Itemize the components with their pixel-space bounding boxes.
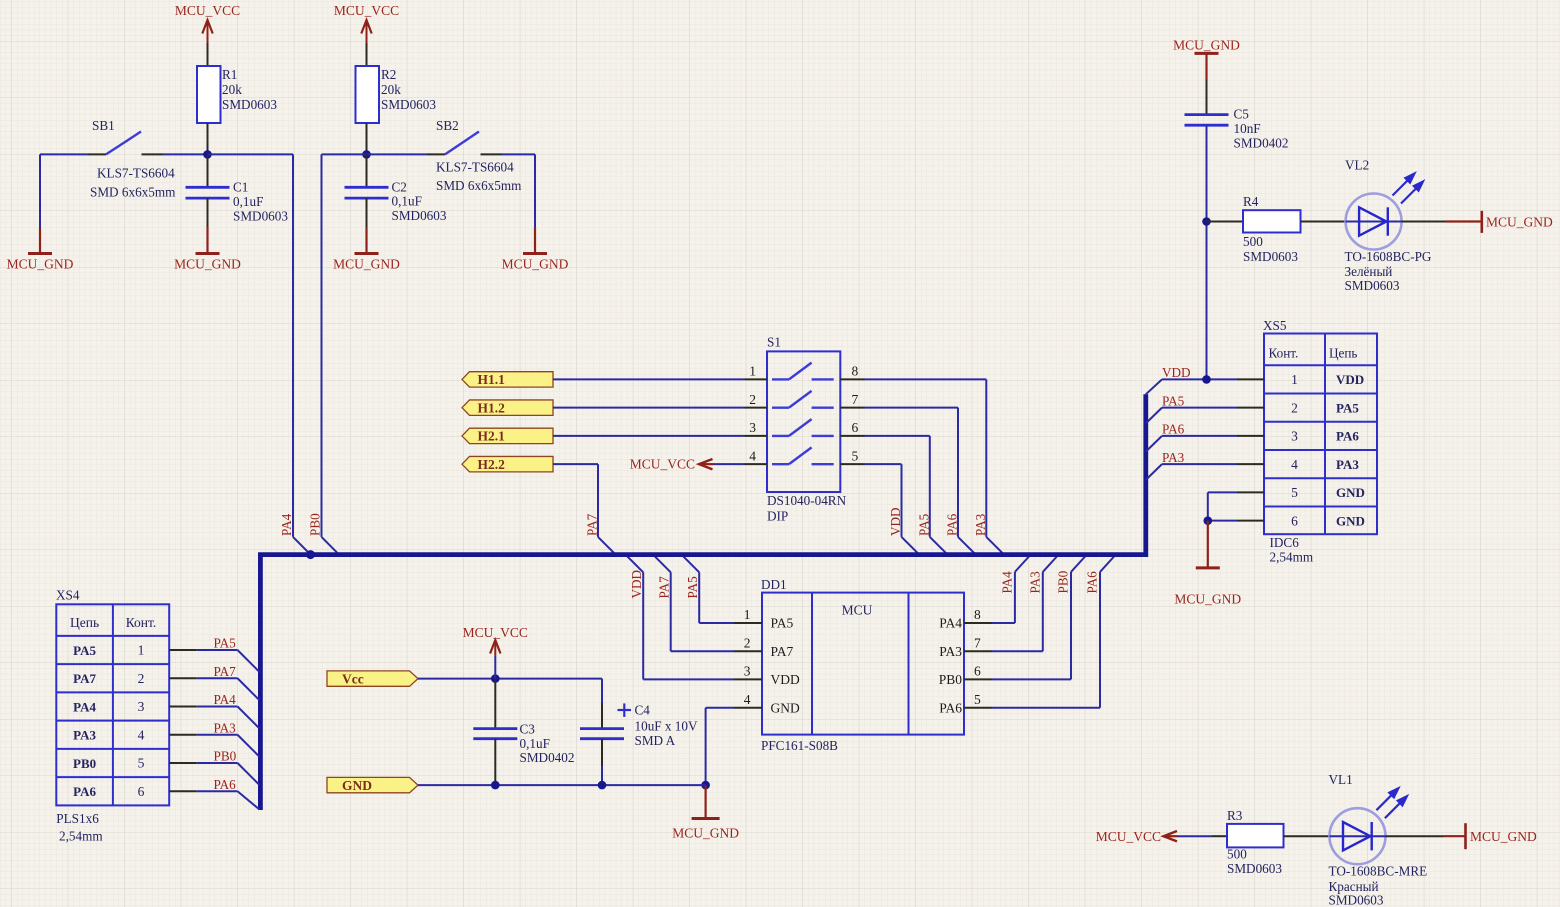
svg-text:R3: R3 (1227, 808, 1243, 823)
svg-text:S1: S1 (767, 335, 781, 350)
wire bus to DD1 (VDD) (643, 678, 734, 680)
svg-text:20k: 20k (222, 82, 242, 97)
svg-text:2,54mm: 2,54mm (1270, 550, 1314, 565)
svg-text:PA3: PA3 (1162, 450, 1185, 465)
svg-text:DIP: DIP (767, 509, 788, 524)
svg-text:PA7: PA7 (771, 644, 794, 659)
svg-text:0,1uF: 0,1uF (392, 194, 422, 209)
svg-text:SMD0402: SMD0402 (520, 750, 575, 765)
svg-text:PA3: PA3 (1336, 457, 1359, 472)
svg-text:DD1: DD1 (761, 577, 787, 592)
svg-text:PB0: PB0 (939, 672, 963, 687)
svg-text:MCU_VCC: MCU_VCC (334, 3, 399, 18)
svg-text:SMD0603: SMD0603 (381, 97, 436, 112)
wire SB2 right drop (534, 154, 536, 227)
wire bus to XS5 (PA5) (1146, 408, 1162, 424)
svg-text:2: 2 (1291, 400, 1298, 415)
svg-text:DS1040-04RN: DS1040-04RN (767, 493, 847, 508)
power MCU_VCC (Vcc rail) (494, 656, 496, 679)
pin R2 bottom (366, 123, 368, 154)
svg-text:Vcc: Vcc (342, 671, 364, 686)
wire bus to XS5 (PA3) (1146, 464, 1162, 480)
resistor R4 (1207, 221, 1244, 223)
svg-text:MCU_GND: MCU_GND (1174, 592, 1241, 607)
svg-text:MCU_GND: MCU_GND (174, 257, 241, 272)
svg-text:6: 6 (852, 420, 859, 435)
svg-text:1: 1 (138, 643, 145, 658)
bus (thick net) (260, 394, 1145, 810)
svg-text:7: 7 (852, 392, 859, 407)
ground MCU_GND (SB1) (39, 227, 41, 254)
svg-text:IDC6: IDC6 (1270, 535, 1300, 550)
svg-text:8: 8 (852, 364, 859, 379)
capacitor C1 (207, 154, 209, 187)
S1 pin 2 (745, 407, 768, 409)
svg-text:PB0: PB0 (1056, 570, 1071, 593)
svg-text:3: 3 (1291, 429, 1298, 444)
svg-text:C3: C3 (520, 722, 536, 737)
svg-text:SMD A: SMD A (635, 733, 676, 748)
svg-text:0,1uF: 0,1uF (233, 194, 263, 209)
svg-text:R4: R4 (1243, 194, 1259, 209)
wire node to PB0 drop (322, 153, 367, 155)
capacitor C2 (366, 154, 368, 187)
svg-text:VDD: VDD (888, 507, 903, 536)
svg-text:VDD: VDD (629, 570, 644, 599)
svg-text:PFC161-S08B: PFC161-S08B (761, 738, 838, 753)
svg-text:PA6: PA6 (1085, 571, 1100, 594)
svg-text:PA4: PA4 (73, 699, 96, 714)
svg-text:H1.1: H1.1 (478, 372, 506, 387)
svg-text:SMD0603: SMD0603 (222, 97, 277, 112)
svg-text:XS5: XS5 (1263, 318, 1287, 333)
svg-text:GND: GND (342, 778, 372, 793)
S1 pin 3 (745, 435, 768, 437)
wire port to S1 (553, 435, 745, 437)
capacitor C4 (601, 703, 603, 729)
svg-text:PA6: PA6 (214, 777, 237, 792)
S1 switch element row 4 (772, 463, 789, 465)
DD1 pin 6 (PB0) (964, 678, 992, 680)
C4 polarity mark (618, 709, 632, 711)
svg-text:PA7: PA7 (214, 664, 237, 679)
wire XS5 GND pins (1208, 491, 1237, 493)
node junction R1/C1/SB1 (203, 150, 212, 159)
svg-text:PA6: PA6 (1162, 422, 1185, 437)
svg-text:Цепь: Цепь (70, 615, 99, 630)
DD1 pin 4 (GND) (734, 707, 762, 709)
svg-text:C5: C5 (1234, 107, 1250, 122)
port Vcc (327, 671, 418, 686)
svg-text:PB0: PB0 (308, 513, 323, 536)
svg-text:PA6: PA6 (73, 784, 96, 799)
svg-text:0,1uF: 0,1uF (520, 736, 550, 751)
svg-text:PA3: PA3 (1027, 571, 1042, 594)
DD1 pin 8 (PA4) (964, 622, 992, 624)
svg-text:MCU_GND: MCU_GND (333, 257, 400, 272)
wire bus to XS5 (PA6) (1146, 436, 1162, 452)
svg-text:500: 500 (1227, 847, 1247, 862)
svg-text:3: 3 (749, 420, 756, 435)
svg-text:VDD: VDD (1162, 365, 1191, 380)
power MCU_VCC (R2 top) (366, 43, 368, 66)
wire bus to DD1 (PA5) (699, 622, 734, 624)
S1 pin 7 (840, 407, 864, 409)
svg-text:C2: C2 (392, 180, 407, 195)
svg-text:4: 4 (744, 692, 751, 707)
wire port to S1 (553, 407, 745, 409)
svg-text:H1.2: H1.2 (478, 400, 506, 415)
svg-text:PA5: PA5 (1336, 400, 1359, 415)
svg-text:6: 6 (974, 664, 981, 679)
svg-text:MCU_VCC: MCU_VCC (175, 3, 240, 18)
wire XS4 PB0 to bus (197, 762, 238, 764)
svg-text:MCU_GND: MCU_GND (1486, 215, 1553, 230)
port H1.1 (462, 372, 553, 387)
node junction Vcc/C3 (491, 674, 500, 683)
svg-text:MCU: MCU (842, 603, 873, 618)
svg-text:GND: GND (771, 700, 800, 715)
node junction GND/C3 (491, 781, 500, 790)
svg-text:2: 2 (744, 635, 751, 650)
svg-text:8: 8 (974, 607, 981, 622)
svg-text:MCU_VCC: MCU_VCC (630, 457, 695, 472)
svg-text:SMD0603: SMD0603 (1243, 249, 1298, 264)
svg-text:SMD0603: SMD0603 (233, 209, 288, 224)
DD1 pin 7 (PA3) (964, 650, 992, 652)
wire DD1 to bus (PA4) (992, 622, 1015, 624)
svg-text:SMD0603: SMD0603 (1329, 893, 1384, 907)
svg-text:PA6: PA6 (945, 513, 960, 536)
svg-text:PA5: PA5 (214, 636, 237, 651)
svg-text:MCU_GND: MCU_GND (672, 826, 739, 841)
wire S1 to bus (VDD) (865, 463, 902, 465)
port H2.2 (462, 456, 553, 471)
svg-text:1: 1 (749, 364, 756, 379)
wire GND rail (418, 784, 706, 786)
svg-text:2: 2 (138, 671, 145, 686)
svg-text:MCU_VCC: MCU_VCC (1096, 829, 1161, 844)
svg-text:VDD: VDD (771, 672, 800, 687)
wire Vcc rail (418, 678, 602, 680)
capacitor C3 (494, 679, 496, 729)
ground MCU_GND (SB2) (534, 227, 536, 254)
power MCU_GND (VL2 right) (1481, 211, 1484, 233)
node junction C5/R4 (1202, 217, 1211, 226)
wire port to S1 (553, 378, 745, 380)
svg-text:PB0: PB0 (214, 749, 237, 764)
wire XS4 PA6 to bus (197, 790, 238, 792)
svg-text:TO-1608BC-MRE: TO-1608BC-MRE (1329, 864, 1428, 879)
svg-text:H2.1: H2.1 (478, 429, 506, 444)
node junction R2/C2/SB2 (362, 150, 371, 159)
svg-text:3: 3 (744, 664, 751, 679)
resistor R1 (197, 66, 221, 123)
S1 pin 4 (745, 463, 768, 465)
svg-text:PA4: PA4 (279, 513, 294, 536)
svg-text:SB1: SB1 (92, 118, 115, 133)
svg-text:VL1: VL1 (1329, 772, 1353, 787)
wire SB1 left drop (39, 154, 41, 227)
svg-text:SMD 6x6x5mm: SMD 6x6x5mm (436, 178, 522, 193)
svg-text:MCU_GND: MCU_GND (1173, 38, 1240, 53)
svg-text:VDD: VDD (1336, 372, 1364, 387)
svg-text:C4: C4 (635, 703, 651, 718)
wire node to PA4 drop (208, 153, 294, 155)
wire H2.2 to PA7 drop (553, 463, 598, 465)
svg-text:PA3: PA3 (939, 644, 962, 659)
svg-text:MCU_GND: MCU_GND (1470, 829, 1537, 844)
svg-text:SB2: SB2 (436, 118, 459, 133)
node junction VDD (1202, 375, 1211, 384)
svg-text:TO-1608BC-PG: TO-1608BC-PG (1345, 249, 1432, 264)
wire bus to XS5 pin1 (VDD) (1146, 379, 1162, 394)
svg-text:PA7: PA7 (657, 576, 672, 599)
svg-text:6: 6 (1291, 513, 1298, 528)
svg-text:2: 2 (749, 392, 756, 407)
node junction XS5 GND (1204, 516, 1213, 525)
ground MCU_GND (C2) (365, 227, 367, 254)
svg-text:GND: GND (1336, 513, 1365, 528)
ground MCU_GND (XS5) (1207, 521, 1209, 568)
wire XS4 PA7 to bus (197, 677, 238, 679)
svg-text:10nF: 10nF (1234, 121, 1261, 136)
resistor R3 (1212, 835, 1227, 837)
svg-text:PA4: PA4 (939, 616, 962, 631)
svg-text:1: 1 (744, 607, 751, 622)
svg-text:R1: R1 (222, 67, 237, 82)
svg-text:PA5: PA5 (771, 616, 794, 631)
svg-text:5: 5 (1291, 485, 1298, 500)
svg-text:GND: GND (1336, 485, 1365, 500)
svg-text:7: 7 (974, 635, 981, 650)
S1 switch element row 1 (772, 378, 789, 380)
wire C5 to VDD node (1206, 125, 1208, 378)
S1 pin 5 (840, 463, 864, 465)
wire S1 to bus (PA6) (865, 407, 959, 409)
svg-text:Конт.: Конт. (1269, 346, 1299, 361)
svg-text:KLS7-TS6604: KLS7-TS6604 (436, 160, 514, 175)
wire DD1 to bus (PB0) (992, 678, 1071, 680)
pin C5 top (1206, 80, 1208, 115)
svg-text:PA6: PA6 (939, 700, 962, 715)
svg-text:R2: R2 (381, 67, 396, 82)
svg-text:500: 500 (1243, 234, 1263, 249)
svg-text:KLS7-TS6604: KLS7-TS6604 (97, 166, 175, 181)
DD1 pin 5 (PA6) (964, 707, 992, 709)
svg-text:4: 4 (138, 727, 145, 742)
svg-text:PA6: PA6 (1336, 429, 1359, 444)
wire XS4 PA3 to bus (197, 734, 238, 736)
node junction on bus (PA4) (306, 550, 315, 559)
svg-text:5: 5 (974, 692, 981, 707)
S1 pin 6 (840, 435, 864, 437)
resistor R2 (356, 66, 380, 123)
svg-text:SMD0603: SMD0603 (392, 208, 447, 223)
wire DD1 to bus (PA6) (992, 707, 1100, 709)
svg-text:PA7: PA7 (73, 671, 96, 686)
ground MCU_GND (C1) (206, 227, 208, 254)
power MCU_VCC (S1 pin4) (699, 463, 713, 465)
svg-text:Конт.: Конт. (126, 615, 157, 630)
capacitor C5 (1185, 113, 1229, 116)
svg-text:PA5: PA5 (73, 643, 96, 658)
svg-text:10uF x 10V: 10uF x 10V (635, 719, 698, 734)
S1 pin 1 (745, 378, 768, 380)
svg-text:4: 4 (749, 448, 756, 463)
wire S1 to bus (PA5) (865, 435, 930, 437)
wire DD1 to bus (PA3) (992, 650, 1043, 652)
wire XS4 PA5 to bus (197, 649, 238, 651)
S1 pin 8 (840, 378, 864, 380)
svg-text:PA4: PA4 (999, 571, 1014, 594)
svg-text:Зелёный: Зелёный (1345, 264, 1393, 279)
svg-text:1: 1 (1291, 372, 1298, 387)
svg-text:XS4: XS4 (56, 588, 80, 603)
wire VL1 to ground (1386, 835, 1444, 837)
node junction GND/pin4 (701, 781, 710, 790)
svg-text:5: 5 (852, 448, 859, 463)
svg-text:PA3: PA3 (73, 728, 96, 743)
svg-text:PLS1x6: PLS1x6 (56, 811, 99, 826)
DD1 pin 2 (PA7) (734, 650, 762, 652)
svg-text:6: 6 (138, 784, 145, 799)
power MCU_GND (VL1 right) (1464, 823, 1467, 849)
node junction GND/C4 (598, 781, 607, 790)
svg-text:20k: 20k (381, 82, 401, 97)
svg-text:PA5: PA5 (916, 513, 931, 536)
svg-text:2,54mm: 2,54mm (59, 829, 103, 844)
port H2.1 (462, 428, 553, 443)
svg-text:SMD0603: SMD0603 (1227, 861, 1282, 876)
svg-text:MCU_VCC: MCU_VCC (463, 625, 528, 640)
power MCU_VCC (R1 top) (207, 43, 209, 66)
wire S1 to bus (PA3) (865, 378, 987, 380)
svg-text:PA3: PA3 (214, 720, 237, 735)
svg-text:PA5: PA5 (685, 576, 700, 599)
wire XS4 PA4 to bus (197, 706, 238, 708)
S1 switch element row 3 (772, 435, 789, 437)
svg-text:VL2: VL2 (1345, 158, 1369, 173)
wire DD1 pin4 to ground (706, 707, 734, 709)
port H1.2 (462, 400, 553, 415)
DD1 pin 3 (VDD) (734, 678, 762, 680)
S1 switch element row 2 (772, 406, 789, 408)
svg-text:C1: C1 (233, 180, 248, 195)
port GND (327, 777, 418, 792)
svg-text:MCU_GND: MCU_GND (502, 257, 569, 272)
DD1 pin 1 (PA5) (734, 622, 762, 624)
svg-text:MCU_GND: MCU_GND (7, 257, 74, 272)
ground MCU_GND (DD1) (704, 785, 706, 818)
svg-text:SMD0402: SMD0402 (1234, 136, 1289, 151)
pin R1 bottom (207, 123, 209, 154)
svg-text:PB0: PB0 (73, 756, 96, 771)
svg-text:Цепь: Цепь (1329, 346, 1357, 361)
svg-text:SMD 6x6x5mm: SMD 6x6x5mm (90, 185, 176, 200)
svg-text:H2.2: H2.2 (478, 457, 506, 472)
svg-text:5: 5 (138, 756, 145, 771)
wire VL2 to ground (1402, 221, 1445, 223)
svg-text:SMD0603: SMD0603 (1345, 278, 1400, 293)
svg-text:3: 3 (138, 699, 145, 714)
svg-text:PA5: PA5 (1162, 393, 1185, 408)
svg-text:PA3: PA3 (973, 513, 988, 536)
svg-text:PA7: PA7 (585, 513, 600, 536)
svg-text:4: 4 (1291, 457, 1298, 472)
svg-text:PA4: PA4 (214, 692, 237, 707)
wire bus to DD1 (PA7) (671, 650, 734, 652)
